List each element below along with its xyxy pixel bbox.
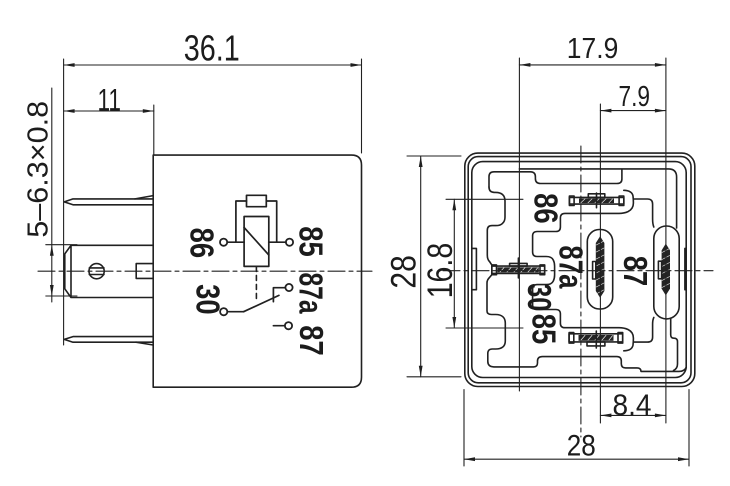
svg-text:87: 87 xyxy=(617,256,654,286)
svg-text:86: 86 xyxy=(183,228,220,259)
dim line 11 xyxy=(64,110,154,112)
arrow 28b L xyxy=(464,457,475,461)
right wall tab xyxy=(685,248,686,289)
contact 87a stub xyxy=(273,288,285,302)
terminal 86 circle xyxy=(220,239,227,246)
arrow 17.9 L xyxy=(519,63,530,67)
centerline right view vertical xyxy=(580,146,582,437)
svg-text:30: 30 xyxy=(189,284,226,315)
pin 86 tab xyxy=(588,194,605,198)
pin 30 blade xyxy=(498,267,539,272)
ext lines 28 left xyxy=(407,156,461,377)
left wall tab xyxy=(472,248,477,289)
svg-text:85: 85 xyxy=(293,226,330,257)
wire terminal 30 xyxy=(227,311,243,313)
dim line 28 bottom xyxy=(464,458,689,460)
svg-text:5–6.3×0.8: 5–6.3×0.8 xyxy=(23,101,55,238)
arrow 16.8 up xyxy=(452,199,456,210)
ext line 11 right xyxy=(153,105,155,155)
svg-text:30: 30 xyxy=(521,283,558,311)
svg-text:36.1: 36.1 xyxy=(184,28,240,69)
pin 85 blade xyxy=(579,335,614,341)
contact 87 stub xyxy=(273,325,284,327)
svg-text:86: 86 xyxy=(527,193,564,224)
arrow 11 R xyxy=(143,109,154,113)
maze top-left zigzag xyxy=(487,187,505,265)
arrow 36.1 L xyxy=(64,63,75,67)
coil K xyxy=(244,217,269,267)
pin 86 blade xyxy=(579,199,614,204)
pin blade top xyxy=(64,199,153,205)
pin 30 slot (left) xyxy=(492,266,545,273)
screw slot xyxy=(89,268,104,275)
maze 87 bottom S jog xyxy=(671,319,678,371)
pin 87 stadium xyxy=(654,226,679,319)
outer square R1 xyxy=(465,153,695,386)
svg-text:87: 87 xyxy=(293,325,330,356)
arrow 36.1 R xyxy=(351,63,362,67)
pin 30 tab xyxy=(510,263,527,266)
centerline left view xyxy=(38,270,372,272)
ext line 17.9 left xyxy=(518,58,520,391)
pin 85 marker xyxy=(595,331,597,348)
arrow 28L up xyxy=(419,156,423,167)
pin 85 tab xyxy=(587,342,605,346)
arrow 28L dn xyxy=(419,366,423,377)
terminal 87a circle xyxy=(285,284,292,291)
wire resistor left xyxy=(236,201,247,242)
ext line 36.1 left xyxy=(63,59,65,345)
dim line 7.9 xyxy=(600,110,666,112)
svg-text:7.9: 7.9 xyxy=(619,81,651,113)
maze pocket chain around labels 86 30 85 and pin slot ends xyxy=(533,190,634,350)
arrow 28b R xyxy=(678,457,689,461)
pin 30 marker xyxy=(517,258,519,278)
arrow 17.9 R xyxy=(655,63,666,67)
svg-text:8.4: 8.4 xyxy=(613,389,652,422)
terminal 30 circle xyxy=(220,308,227,315)
svg-text:16.8: 16.8 xyxy=(421,243,460,299)
mechanical link dashed xyxy=(255,266,257,302)
dim line 17.9 xyxy=(519,64,666,66)
ext line 36.1 right xyxy=(361,59,363,153)
svg-text:11: 11 xyxy=(98,82,122,118)
pin 86 caps xyxy=(569,196,574,206)
pin blade bottom 3d edge xyxy=(136,342,153,345)
maze shelf to 87 stadium bottom xyxy=(633,318,653,343)
arrow 6.3 dn xyxy=(50,285,54,296)
svg-text:28: 28 xyxy=(385,255,424,289)
svg-text:28: 28 xyxy=(567,430,596,463)
wire terminal 86 xyxy=(227,241,244,243)
arrow 8.4 R xyxy=(655,414,666,418)
svg-text:17.9: 17.9 xyxy=(567,33,619,65)
arrowheads xyxy=(50,63,689,461)
wire resistor right xyxy=(266,201,276,242)
ext lines 16.8 xyxy=(446,199,523,328)
outer square R2 xyxy=(468,157,691,383)
dim line 36.1 xyxy=(64,64,362,66)
centerline right view horizontal xyxy=(443,270,713,272)
wire terminal 85 xyxy=(269,241,286,243)
maze top-left shelf and step over top pin xyxy=(489,169,622,187)
dim line 8.4 xyxy=(600,414,666,416)
terminal 85 circle xyxy=(286,239,293,246)
ext lines 28 bottom xyxy=(464,390,689,466)
maze top right rail xyxy=(519,169,676,228)
arrow 7.9 L xyxy=(600,109,611,113)
coil diagonal xyxy=(244,228,269,256)
pin 86 slot xyxy=(569,197,623,204)
middle pin block xyxy=(65,245,153,297)
switch arm xyxy=(244,295,279,311)
relay body outline xyxy=(153,155,361,387)
pin 85 caps xyxy=(569,333,574,344)
terminal 87 circle xyxy=(285,322,292,329)
pin 85 slot (bottom) xyxy=(569,334,623,342)
body slot rectangle xyxy=(136,264,153,279)
ext lines 6.3 xyxy=(46,245,77,296)
arrow 8.4 L xyxy=(600,414,611,418)
maze bottom-left zigzag xyxy=(487,275,686,372)
resistor R (parallel) xyxy=(247,195,267,206)
pin 87a tab xyxy=(593,262,596,280)
pin 87a blade xyxy=(596,236,605,298)
pin blade top 3d edge xyxy=(135,196,153,199)
pin 86 marker xyxy=(596,193,598,208)
svg-text:85: 85 xyxy=(526,314,563,345)
arrow 6.3 up xyxy=(50,245,54,256)
pin 87 tab xyxy=(658,261,661,279)
maze shelf to 87 stadium top xyxy=(633,199,653,227)
ext line 7.9/8.4 center xyxy=(599,104,601,423)
screw head circle xyxy=(89,264,104,279)
pin 87 blade xyxy=(662,244,670,296)
arrow 11 L xyxy=(64,109,75,113)
pin 87a stadium xyxy=(587,230,612,310)
pin 30 caps xyxy=(492,265,497,275)
dim line 16.8 xyxy=(453,199,455,328)
svg-text:87a: 87a xyxy=(293,273,330,314)
inner wall R3 xyxy=(472,162,686,378)
ext line right pins xyxy=(665,58,667,423)
dim line 28 left xyxy=(420,156,422,377)
pin blade bottom xyxy=(64,337,153,343)
arrow 7.9 R xyxy=(655,109,666,113)
dim line 6.3 xyxy=(51,88,53,302)
arrow 16.8 dn xyxy=(452,317,456,328)
